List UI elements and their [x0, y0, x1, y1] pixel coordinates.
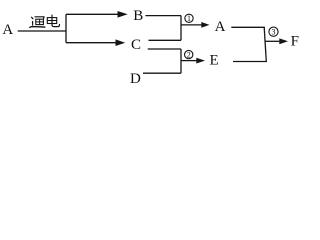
wire bracket 2 vertical: [180, 49, 182, 73]
svg-text:C: C: [131, 37, 141, 53]
wire E right: [233, 61, 267, 63]
arrowhead to B: [118, 11, 128, 18]
reaction arrow 3 shaft: [265, 40, 280, 42]
wire C upper right: [149, 39, 182, 41]
wire merge vertical: [264, 27, 266, 61]
svg-text:3: 3: [272, 27, 276, 36]
reaction arrow 1 shaft: [181, 24, 202, 26]
wire C lower right: [148, 48, 181, 50]
wire branch vertical: [65, 14, 67, 42]
svg-text:1: 1: [187, 14, 191, 23]
label circled 1: [185, 14, 193, 23]
svg-text:D: D: [130, 71, 141, 87]
wire A2 right: [231, 26, 265, 28]
arrowhead reaction 2: [196, 58, 205, 64]
svg-text:2: 2: [187, 50, 191, 59]
wire D right: [143, 72, 181, 74]
reaction arrow 2 shaft: [181, 60, 197, 62]
wire B right: [145, 15, 181, 17]
svg-text:A: A: [215, 19, 226, 35]
arrow to B: [66, 13, 119, 15]
svg-text:A: A: [2, 22, 13, 38]
label dian (电) of 通电 electrolysis condition: [47, 15, 59, 27]
arrow to C: [66, 42, 117, 44]
arrowhead to C: [116, 39, 126, 46]
label circled 2: [185, 50, 193, 59]
svg-text:B: B: [133, 8, 143, 24]
arrowhead reaction 3: [279, 38, 288, 44]
label circled 3: [269, 27, 278, 36]
wire bracket 1 vertical: [180, 16, 182, 41]
svg-text:F: F: [291, 34, 299, 50]
wire A to branch point: [18, 30, 66, 32]
arrowhead reaction 1: [201, 22, 209, 28]
svg-text:E: E: [210, 52, 219, 68]
label tong (通) of 通电 electrolysis condition: [30, 17, 45, 28]
